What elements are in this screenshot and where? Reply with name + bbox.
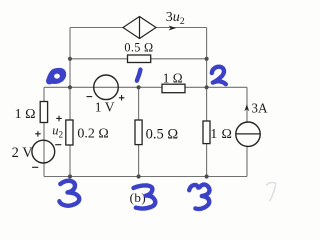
svg-text:2 V: 2 V xyxy=(12,145,34,161)
svg-text:3u2: 3u2 xyxy=(166,10,185,27)
svg-text:1 Ω: 1 Ω xyxy=(15,107,36,122)
svg-text:0.5 Ω: 0.5 Ω xyxy=(146,126,179,142)
svg-text:u2: u2 xyxy=(52,124,63,140)
svg-text:1 Ω: 1 Ω xyxy=(210,127,232,142)
svg-text:3A: 3A xyxy=(251,101,268,116)
svg-text:(b): (b) xyxy=(130,190,147,205)
svg-text:1 V: 1 V xyxy=(95,100,115,115)
svg-text:0.2 Ω: 0.2 Ω xyxy=(77,127,108,142)
svg-text:1 Ω: 1 Ω xyxy=(163,70,183,85)
svg-text:0.5 Ω: 0.5 Ω xyxy=(124,41,153,55)
